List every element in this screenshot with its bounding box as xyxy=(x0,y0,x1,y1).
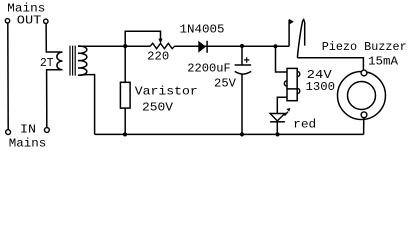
wiper arrowhead xyxy=(158,39,162,44)
label Varistor xyxy=(135,85,198,99)
svg-text:Varistor: Varistor xyxy=(135,85,198,99)
label OUT xyxy=(17,13,41,27)
svg-text:2200uF: 2200uF xyxy=(187,62,231,76)
svg-text:1N4005: 1N4005 xyxy=(180,22,225,36)
piezo buzzer outer circle xyxy=(338,72,386,120)
capacitor C1 plus sign xyxy=(244,57,249,63)
wire relay coil feed xyxy=(276,46,288,72)
label 25V xyxy=(214,76,237,90)
junction bottom rail / capacitor xyxy=(240,132,244,136)
label 250V xyxy=(142,100,174,114)
label 24V xyxy=(307,68,333,82)
svg-text:IN: IN xyxy=(20,122,36,136)
label 220 xyxy=(147,50,169,64)
svg-text:15mA: 15mA xyxy=(368,54,399,68)
LED D2 triangle xyxy=(270,114,285,121)
relay coil bump left xyxy=(284,81,287,86)
relay contact blade xyxy=(297,20,304,58)
wire rheostat wiper loop xyxy=(125,31,160,45)
varistor body xyxy=(120,82,130,108)
wire buzzer bottom lead xyxy=(363,118,365,134)
svg-text:25V: 25V xyxy=(214,76,237,90)
label Mains (top) xyxy=(7,1,45,15)
wire top rail xyxy=(78,45,289,47)
wire bottom rail xyxy=(95,133,364,135)
wire varistor bottom lead xyxy=(124,108,126,134)
buzzer terminal bottom xyxy=(361,112,367,118)
relay coil bump lower-right xyxy=(297,88,300,93)
label 2T xyxy=(40,56,54,70)
terminal OUT-R xyxy=(44,19,48,23)
LED emission arrow xyxy=(285,112,289,116)
junction top rail / capacitor xyxy=(240,44,244,48)
label Piezo Buzzer xyxy=(322,40,407,54)
capacitor C1 top plate xyxy=(235,64,252,66)
diode D1 1N4005 triangle xyxy=(198,41,206,53)
wire LED bottom lead xyxy=(276,122,278,135)
label 1300 xyxy=(306,80,336,94)
relay coil divider xyxy=(287,88,297,90)
label 1N4005 xyxy=(180,22,225,36)
LED emission arrowhead xyxy=(286,108,290,112)
terminal OUT-L xyxy=(5,19,9,23)
transformer T1 secondary winding xyxy=(78,46,87,75)
terminal IN-L xyxy=(6,130,11,135)
relay contact fixed post xyxy=(288,20,290,47)
label IN xyxy=(20,122,36,136)
wire capacitor bottom lead xyxy=(241,75,243,135)
wire primary bottom to IN-R xyxy=(47,70,62,128)
wire relay coil to LED xyxy=(277,97,287,113)
relay contact arrowhead xyxy=(289,19,294,25)
relay coil bump upper-right xyxy=(297,71,300,76)
label red xyxy=(293,118,316,132)
LED D2 cathode bar xyxy=(270,121,285,123)
wire capacitor top lead xyxy=(241,46,243,65)
svg-text:OUT: OUT xyxy=(17,13,41,27)
svg-text:220: 220 xyxy=(147,50,169,64)
relay coil K1 body xyxy=(287,68,297,100)
svg-text:2T: 2T xyxy=(40,56,54,70)
wire secondary bottom to bottom rail xyxy=(78,75,95,135)
svg-text:1300: 1300 xyxy=(306,80,336,94)
transformer core xyxy=(70,46,75,76)
wire OUT-R down to primary xyxy=(46,24,62,52)
svg-text:Mains: Mains xyxy=(9,136,47,150)
label 15mA xyxy=(368,54,399,68)
wire varistor top lead xyxy=(124,46,126,82)
resistor 220 zigzag xyxy=(150,43,174,48)
transformer T1 primary winding xyxy=(57,52,63,70)
wire blade to buzzer xyxy=(297,58,363,71)
junction bottom rail / LED xyxy=(275,132,279,136)
label Mains (bottom) xyxy=(9,136,47,150)
wire left mains rail xyxy=(7,23,9,129)
svg-text:250V: 250V xyxy=(142,100,174,114)
label 2200uF xyxy=(187,62,231,76)
junction top rail / relay coil xyxy=(273,44,277,48)
svg-text:Piezo Buzzer: Piezo Buzzer xyxy=(322,40,407,54)
diode D1 cathode bar xyxy=(206,41,208,53)
junction top rail / varistor xyxy=(123,44,127,48)
svg-text:red: red xyxy=(293,118,316,132)
junction bottom rail / varistor xyxy=(123,132,127,136)
terminal IN-R xyxy=(45,128,50,133)
capacitor C1 bottom plate (curved) xyxy=(235,71,251,74)
buzzer terminal top xyxy=(361,70,367,76)
piezo buzzer inner circle xyxy=(348,82,376,110)
